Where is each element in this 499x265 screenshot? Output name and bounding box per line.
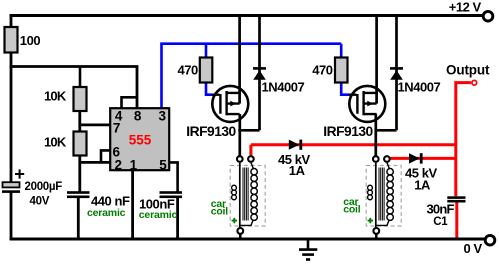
svg-text:10K: 10K [44, 89, 67, 104]
svg-text:+12 V: +12 V [449, 0, 482, 14]
wire red net B from coil2 secondary to output node [390, 157, 456, 160]
svg-text:7: 7 [113, 121, 121, 136]
svg-text:coil: coil [343, 203, 361, 215]
svg-text:30nF: 30nF [427, 201, 455, 216]
wire 10K divider chain [79, 67, 82, 88]
IC 555 timer U1 [110, 108, 169, 172]
resistor 470 #1 [178, 58, 213, 83]
wire bottom 0V rail [10, 238, 486, 241]
svg-text:Output: Output [446, 62, 490, 77]
svg-text:440 nF: 440 nF [91, 193, 130, 208]
wire diode D1 vertical from +12V rail [258, 14, 261, 130]
wire 555 pin1 to 0V rail [131, 171, 134, 241]
svg-text:555: 555 [129, 132, 152, 147]
diode D1 1N4007 [253, 68, 305, 94]
resistor 100 [5, 27, 41, 53]
svg-text:IRF9130: IRF9130 [323, 124, 373, 139]
wire left rail upper (through resistor 100) [10, 14, 13, 183]
wire diode D2 vertical from +12V rail [395, 14, 398, 130]
capacitor 2000uF 40V electrolytic [2, 169, 62, 207]
svg-text:5: 5 [159, 157, 167, 172]
transformer T1 car coil [211, 156, 266, 240]
transformer T2 car coil [343, 156, 401, 240]
svg-text:1A: 1A [414, 177, 431, 192]
diode D3 45kV 1A [278, 140, 311, 179]
svg-text:8: 8 [134, 108, 142, 123]
ground [299, 240, 317, 260]
diode D4 45kV 1A [405, 153, 438, 192]
terminal +12V [449, 0, 493, 21]
terminal 0V [464, 235, 495, 256]
svg-text:470: 470 [312, 62, 333, 77]
wire capacitor 440nF to 0V rail [77, 198, 80, 240]
wire 555 pin4 bracket to pin8 line [122, 97, 138, 108]
svg-text:3: 3 [159, 108, 167, 123]
wire capacitor 100nF to 0V rail [176, 198, 179, 240]
capacitor C1 30nF [427, 196, 466, 228]
resistor 10K lower [44, 132, 87, 156]
wire left rail lower (capacitor 2000uF to 0V rail) [10, 192, 13, 240]
svg-text:100: 100 [20, 33, 41, 48]
transistor Q1 IRF9130 [186, 86, 248, 139]
diode D2 1N4007 [390, 68, 441, 94]
svg-text:10K: 10K [44, 135, 67, 150]
svg-text:2000µF: 2000µF [25, 181, 63, 193]
wire source of Q1 from +12V rail [238, 14, 241, 104]
capacitor 100nF ceramic [139, 191, 182, 221]
wire vcc branch rail to 555 pin8 [10, 67, 137, 109]
svg-text:1: 1 [130, 157, 138, 172]
wire red output node vertical and to Output terminal [456, 83, 471, 197]
wire top +12V rail [10, 14, 482, 17]
svg-text:ceramic: ceramic [139, 209, 178, 221]
wire blue drop to resistor 470 #2 [340, 44, 343, 57]
wire blue pin3 to blue rail [160, 44, 163, 108]
svg-text:IRF9130: IRF9130 [186, 124, 236, 139]
svg-text:1A: 1A [289, 163, 306, 178]
wire pin6 to pin2 jumper [101, 150, 110, 162]
wire blue drop to resistor 470 #1 [205, 44, 208, 57]
wire red C1 bottom lead to 0V rail [455, 202, 458, 239]
wire junction 10K resistors to pin7 [79, 110, 110, 131]
svg-text:ceramic: ceramic [87, 207, 126, 219]
svg-text:C1: C1 [433, 216, 448, 228]
transistor Q2 IRF9130 [323, 86, 385, 139]
wire blue resistor 470 #2 to gate of Q2 [341, 83, 349, 95]
wire 555 pin5 to capacitor 100nF [170, 162, 178, 191]
svg-text:40V: 40V [30, 195, 50, 207]
wire 10K lower to capacitor 440nF and pin2 [79, 155, 110, 192]
wire drain junction Q1 to diode D1 [238, 129, 259, 132]
wire blue resistor 470 #1 to gate of Q1 [206, 83, 212, 95]
svg-text:2: 2 [114, 157, 122, 172]
svg-text:coil: coil [211, 206, 229, 218]
resistor 470 #2 [312, 58, 347, 83]
wire red net A from coil1 secondary to output node [251, 145, 456, 156]
wire source of Q2 from +12V rail [375, 14, 378, 104]
svg-text:470: 470 [178, 62, 199, 77]
wire drain of Q1 to coil1 [238, 114, 241, 155]
svg-text:0 V: 0 V [464, 241, 483, 256]
capacitor 440nF ceramic [67, 191, 130, 219]
wire drain junction Q2 to diode D2 [375, 129, 396, 132]
svg-text:1N4007: 1N4007 [398, 80, 441, 95]
wire drain of Q2 to coil2 [374, 114, 377, 155]
wire blue rail horizontal [160, 42, 341, 45]
terminal Output [446, 62, 490, 85]
resistor 10K upper [44, 87, 87, 111]
svg-text:1N4007: 1N4007 [262, 80, 305, 95]
